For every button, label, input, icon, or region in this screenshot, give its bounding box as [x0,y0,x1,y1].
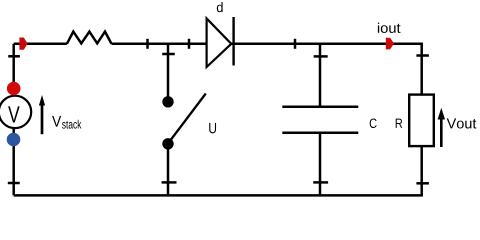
junction tick (left branch top) [8,55,20,58]
junction tick (top rail) [188,39,191,49]
wire: load box to bottom-right corner [420,146,423,195]
diode d (cathode bar) [232,17,234,66]
capacitor C bottom plate [282,132,358,135]
wire: diode to top-right corner, down to load [231,44,421,95]
wire: switch branch top [167,44,170,102]
junction tick (capacitor branch bottom) [313,181,328,184]
switch contact upper dot [162,96,173,107]
capacitor C top plate [282,106,358,109]
label U [209,123,216,133]
blue dot (- terminal) [7,133,21,147]
wire: left branch bottom (source - lead) [12,127,15,195]
junction tick (right branch bottom) [416,182,429,185]
label R [396,119,403,128]
diode d (triangle) [207,19,232,68]
label V_stack [52,116,61,127]
label C [370,118,377,128]
switch lever [170,94,206,142]
red arrow iout [386,38,394,50]
junction tick (right branch top) [416,54,429,57]
resistor (zigzag, top rail) [67,32,112,44]
wire: resistor to diode [112,43,208,46]
wire: left branch top (source + terminal lead) [12,44,15,97]
junction tick (top rail) [294,39,297,49]
junction tick (switch branch bottom) [162,181,177,184]
label d [217,2,223,12]
label iout [378,23,401,33]
wire: switch branch bottom [167,144,170,196]
switch contact lower dot [162,138,173,149]
voltage source V (circle) [0,96,31,128]
junction tick (left branch bottom) [8,182,20,185]
junction tick (capacitor branch top) [314,55,328,58]
wire: capacitor branch bottom [319,133,322,196]
label Vout [447,118,477,128]
wire: capacitor branch top [319,44,322,107]
junction tick (top rail) [146,39,149,49]
label V (inside source) [8,106,20,122]
red dot (+ terminal) [7,82,21,96]
wire: top rail left segment [14,43,67,46]
arrow Vout [440,117,443,147]
arrow V_stack [41,104,44,134]
wire: bottom rail [14,194,423,197]
junction tick (switch branch top) [162,53,175,56]
resistor R (load box) [409,95,434,147]
red arrow (stack current) [19,38,27,50]
